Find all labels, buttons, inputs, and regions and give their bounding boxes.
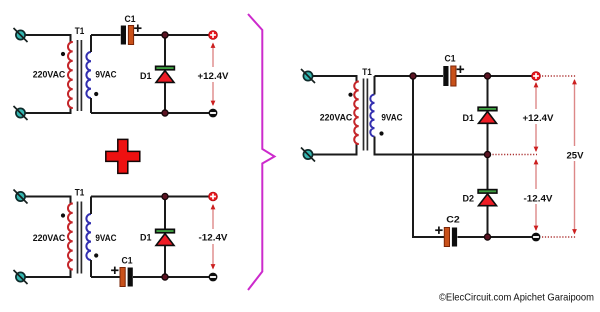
svg-text:D1: D1 (463, 113, 475, 124)
svg-text:D1: D1 (140, 233, 152, 244)
svg-text:T1: T1 (362, 67, 372, 78)
svg-text:25V: 25V (567, 150, 585, 161)
svg-text:220VAC: 220VAC (33, 70, 66, 81)
svg-text:+12.4V: +12.4V (198, 71, 230, 82)
svg-text:-12.4V: -12.4V (524, 193, 554, 204)
svg-text:9VAC: 9VAC (381, 113, 402, 124)
svg-text:220VAC: 220VAC (320, 113, 353, 124)
svg-text:C1: C1 (122, 255, 134, 266)
svg-text:9VAC: 9VAC (95, 70, 116, 81)
svg-text:T1: T1 (75, 26, 85, 37)
svg-text:220VAC: 220VAC (33, 233, 66, 244)
svg-text:D2: D2 (463, 193, 475, 204)
svg-text:D1: D1 (140, 71, 152, 82)
svg-text:©ElecCircuit.com Apichet Garai: ©ElecCircuit.com Apichet Garaipoom (439, 291, 594, 303)
svg-text:C1: C1 (445, 54, 457, 65)
svg-text:C2: C2 (446, 214, 460, 225)
svg-text:+12.4V: +12.4V (523, 113, 555, 124)
svg-text:9VAC: 9VAC (95, 233, 116, 244)
svg-text:-12.4V: -12.4V (199, 233, 229, 244)
svg-text:T1: T1 (75, 187, 85, 198)
svg-text:C1: C1 (125, 14, 137, 25)
